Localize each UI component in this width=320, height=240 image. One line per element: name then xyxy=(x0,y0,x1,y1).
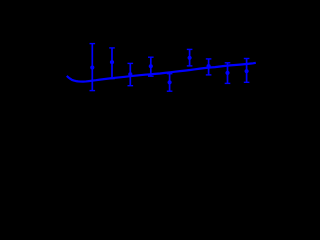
error bar point 4 xyxy=(148,57,154,76)
error bar point 7 xyxy=(206,59,212,75)
error bar point 2 xyxy=(109,48,115,79)
error bar point 6 xyxy=(187,49,193,66)
error bar point 8 xyxy=(225,63,231,84)
error bar point 5 xyxy=(167,74,173,92)
error bar point 3 xyxy=(128,63,134,85)
error bar point 9 xyxy=(244,59,250,83)
fit curve xyxy=(67,63,256,82)
error bar point 1 xyxy=(90,44,96,91)
